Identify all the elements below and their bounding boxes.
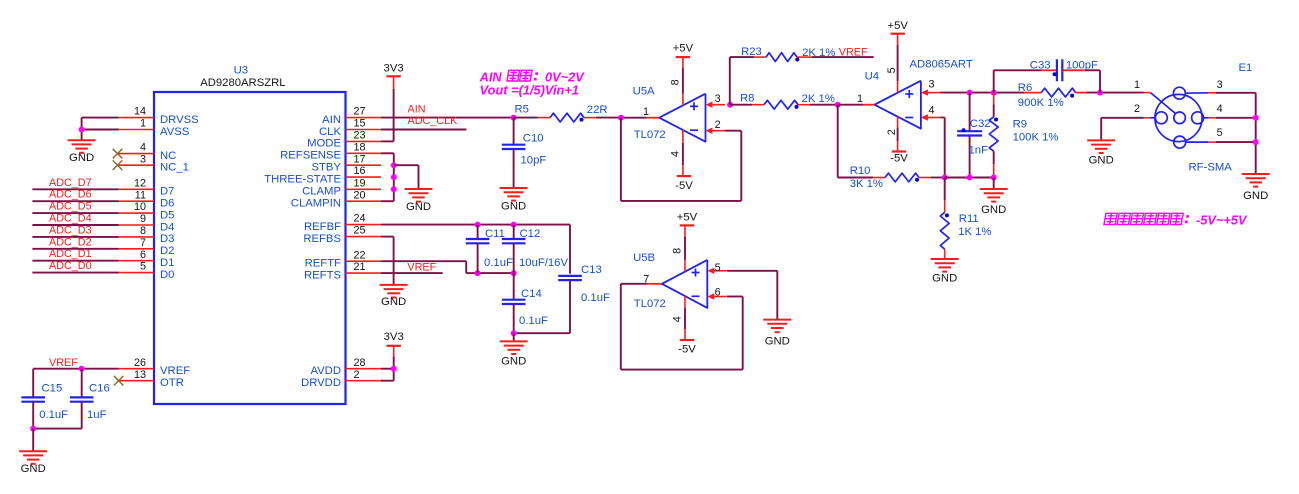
wire down to GND	[32, 429, 34, 452]
svg-text:OTR: OTR	[160, 377, 184, 389]
svg-text:1uF: 1uF	[87, 409, 107, 421]
junction R10/R11/pin4 node	[942, 175, 948, 181]
wire data bit ADC_D7	[32, 188, 118, 190]
svg-text:22: 22	[354, 249, 366, 261]
svg-text:AD8065ART: AD8065ART	[910, 58, 973, 70]
svg-text:U5A: U5A	[633, 85, 655, 97]
U3 pin 23 MODE	[345, 140, 381, 142]
no-connect X pin 4 NC	[113, 149, 123, 159]
capacitor C12	[513, 225, 515, 239]
svg-text:ADC_CLK: ADC_CLK	[408, 115, 459, 127]
junction U5A output node	[618, 115, 624, 121]
junction AVDD 3V3	[391, 366, 397, 372]
svg-text:2: 2	[1134, 103, 1140, 115]
wire data bit ADC_D2	[32, 248, 118, 250]
svg-text:ADC_D1: ADC_D1	[49, 248, 92, 260]
wire to GND under C14	[513, 333, 515, 341]
U3 pin 10 D5	[119, 212, 154, 214]
wire REFTF pin22	[381, 260, 466, 262]
wire data bit ADC_D5	[32, 212, 118, 214]
wire C32/R9 bottoms to GND	[945, 177, 994, 179]
junction VREF at C16 top	[79, 366, 85, 372]
svg-text:27: 27	[354, 106, 366, 118]
U4 pin 4 wire to R10/R11 node	[940, 117, 944, 119]
svg-text:U3: U3	[234, 64, 248, 76]
svg-text:R8: R8	[740, 92, 754, 104]
wire C11-C12 bottoms row	[478, 272, 514, 274]
ground GND under R9	[980, 188, 1008, 190]
U5A feedback wire pin2 to output	[725, 130, 741, 132]
svg-text:15: 15	[354, 118, 366, 130]
svg-text:2: 2	[715, 119, 721, 131]
wire data bit ADC_D1	[32, 260, 118, 262]
wire R8 node down to R10	[837, 105, 839, 178]
svg-text:-5V: -5V	[678, 344, 696, 356]
svg-text:AIN: AIN	[322, 114, 341, 126]
U5B pin 4 -5V	[684, 296, 686, 308]
U3 pin 20 CLAMPIN	[345, 200, 381, 202]
svg-text:TL072: TL072	[634, 129, 666, 141]
ground GND right of E1	[1242, 173, 1270, 175]
svg-text:D6: D6	[160, 198, 174, 210]
svg-text:+5V: +5V	[887, 20, 908, 32]
svg-text:C10: C10	[523, 133, 544, 145]
junction C14 bottom	[511, 330, 517, 336]
junction pin5 row	[1253, 139, 1259, 145]
capacitor C14	[513, 273, 515, 300]
svg-text:4: 4	[928, 105, 934, 117]
U3 pin 6 D1	[119, 260, 154, 262]
wire C15/C16 bottoms joined	[33, 428, 81, 430]
wire C13 bottom to C14 bottom	[514, 332, 570, 334]
wire 3V3 to MODE pin 23	[393, 76, 395, 89]
svg-text:RF-SMA: RF-SMA	[1189, 162, 1233, 174]
svg-text:C16: C16	[89, 382, 110, 394]
junction pin16 row	[391, 174, 397, 180]
svg-text:ADC_D2: ADC_D2	[49, 236, 92, 248]
U3 pin 27 AIN	[345, 117, 381, 119]
note analog input range -5V~+5V (magenta)	[1104, 213, 1117, 224]
ground GND under REFBS	[380, 284, 408, 286]
svg-text:GND: GND	[381, 296, 406, 308]
svg-text:7: 7	[140, 237, 146, 249]
svg-text:CLAMP: CLAMP	[302, 186, 341, 198]
svg-text:Vout =(1/5)Vin+1: Vout =(1/5)Vin+1	[480, 83, 579, 98]
svg-text:5: 5	[140, 261, 146, 273]
U5B feedback wire pin6 to output	[621, 283, 647, 285]
resistor R9 100K 1%	[993, 93, 995, 105]
svg-text:CLK: CLK	[319, 126, 341, 138]
wire VREF pin26 to C15/C16	[33, 368, 118, 370]
U3 pin 2 DRVDD	[345, 380, 381, 382]
E1 pin 1	[1144, 92, 1151, 94]
svg-text:3V3: 3V3	[384, 63, 404, 75]
U5B pin 6 input arrow	[713, 296, 727, 298]
svg-text:REFSENSE: REFSENSE	[280, 150, 341, 162]
svg-text:C14: C14	[521, 288, 542, 300]
junction C12/C14 node	[511, 270, 517, 276]
U3 pin 16 THREE-STATE	[345, 176, 381, 178]
svg-text:AVDD: AVDD	[310, 365, 341, 377]
wire E1 pins 3/4/5 common to GND	[1255, 93, 1257, 174]
wire data bit ADC_D0	[32, 272, 118, 274]
svg-text:3: 3	[715, 93, 721, 105]
svg-text:5: 5	[715, 262, 721, 274]
junction AIN at C10/R5	[511, 115, 517, 121]
svg-text:-5V~+5V: -5V~+5V	[1196, 213, 1248, 228]
svg-text:D3: D3	[160, 233, 174, 245]
svg-text:D1: D1	[160, 257, 174, 269]
resistor R5 22R	[514, 117, 538, 119]
svg-text:19: 19	[354, 177, 366, 189]
capacitor C11	[477, 225, 479, 239]
svg-text:28: 28	[354, 357, 366, 369]
svg-text:REFBF: REFBF	[304, 221, 341, 233]
svg-text:1nF: 1nF	[969, 145, 989, 157]
svg-text:CLAMPIN: CLAMPIN	[291, 198, 341, 210]
svg-text:R10: R10	[850, 165, 871, 177]
capacitor C33 100pF parallel branch	[993, 70, 995, 92]
svg-text:NC: NC	[160, 150, 176, 162]
U4 pin 2 -5V	[897, 117, 899, 128]
svg-text:8: 8	[140, 225, 146, 237]
wire 3V3 to AVDD/DRVDD	[393, 346, 395, 357]
no-connect X pin 13 OTR	[114, 376, 124, 386]
junction C32 bottom	[967, 175, 973, 181]
U3 pin 8 D3	[119, 236, 154, 238]
capacitor C13	[558, 275, 582, 277]
svg-text:GND: GND	[981, 204, 1006, 216]
power -5V below U4	[892, 150, 906, 152]
ground GND under C14	[500, 340, 528, 342]
capacitor C15	[32, 369, 34, 398]
U3 pin 24 REFBF	[345, 224, 381, 226]
svg-text:1: 1	[643, 106, 649, 118]
resistor R8 2K 1%	[730, 104, 752, 106]
U5A pin 8 +5V	[682, 94, 684, 106]
power +5V above U5B	[680, 224, 694, 226]
wire data bit ADC_D3	[32, 236, 118, 238]
svg-text:21: 21	[354, 261, 366, 273]
svg-text:AIN: AIN	[408, 104, 426, 116]
svg-text:D4: D4	[160, 221, 174, 233]
U3 pin 1 AVSS	[119, 129, 154, 131]
svg-text:TL072: TL072	[634, 298, 666, 310]
svg-text:2: 2	[886, 129, 898, 135]
connector E1 RF-SMA symbol	[1155, 94, 1202, 141]
svg-text:VREF: VREF	[160, 365, 190, 377]
junction C12 top	[511, 222, 517, 228]
wire REFBS pin25 to GND	[381, 236, 394, 238]
U3 pin 18 REFSENSE	[345, 152, 381, 154]
svg-text:+5V: +5V	[673, 43, 694, 55]
ground GND under C10	[500, 187, 528, 189]
ground GND right of U3 pins	[405, 188, 433, 190]
svg-text:6: 6	[715, 287, 721, 299]
wire AIN net	[381, 117, 514, 119]
svg-text:ADC_D0: ADC_D0	[49, 260, 92, 272]
U5A pin 3 input arrow	[712, 104, 726, 106]
junction R9/C33 node	[991, 90, 997, 96]
svg-text:-5V: -5V	[890, 152, 908, 164]
junction on AVSS wire	[79, 127, 85, 133]
svg-text:VREF: VREF	[407, 261, 436, 273]
svg-text:GND: GND	[406, 201, 431, 213]
U5B output pin 7	[647, 283, 662, 285]
svg-text:DRVDD: DRVDD	[301, 377, 341, 389]
power -5V below U5A	[677, 175, 691, 177]
svg-text:0.1uF: 0.1uF	[581, 292, 610, 304]
wire REFTS pin21 with VREF label	[381, 272, 443, 274]
svg-text:3V3: 3V3	[384, 331, 404, 343]
svg-text:R6: R6	[1018, 82, 1032, 94]
svg-text:100pF: 100pF	[1066, 60, 1098, 72]
U5B pin 5 input arrow	[713, 270, 727, 272]
svg-text:4: 4	[1217, 103, 1223, 115]
U3 pin 7 D2	[119, 248, 154, 250]
svg-text:U4: U4	[865, 70, 879, 82]
junction pin17 row	[391, 162, 397, 168]
E1 pin 4	[1204, 117, 1209, 119]
svg-text:5: 5	[886, 67, 898, 73]
svg-text:GND: GND	[501, 356, 526, 368]
svg-text:R9: R9	[1013, 119, 1027, 131]
svg-text:C13: C13	[581, 264, 602, 276]
junction pin19 row	[391, 186, 397, 192]
svg-text:22R: 22R	[587, 104, 608, 116]
U3 pin 11 D6	[119, 200, 154, 202]
svg-text:GND: GND	[1243, 190, 1268, 202]
svg-text:2K 1%: 2K 1%	[802, 93, 835, 105]
svg-text:GND: GND	[932, 273, 957, 285]
power -5V below U5B	[680, 339, 694, 341]
svg-text:10pF: 10pF	[521, 155, 547, 167]
svg-text:0.1uF: 0.1uF	[519, 315, 548, 327]
svg-text:100K 1%: 100K 1%	[1013, 132, 1059, 144]
svg-text:11: 11	[135, 189, 146, 201]
junction R8 right / U4 pin1 node	[835, 102, 841, 108]
svg-text:MODE: MODE	[307, 138, 341, 150]
no-connect X pin 3 NC_1	[113, 160, 123, 170]
U5A pin 4 -5V	[682, 130, 684, 143]
resistor R23 2K 1%	[730, 56, 754, 58]
op-amp U5A TL072 triangle	[659, 94, 705, 142]
wire AVSS to GND	[82, 129, 119, 131]
svg-text:12: 12	[134, 177, 146, 189]
svg-text:20: 20	[354, 189, 366, 201]
svg-text:U5B: U5B	[633, 252, 655, 264]
svg-text:25: 25	[354, 225, 366, 237]
wire U4 pin3 row to SMA pin1	[940, 92, 1024, 94]
U3 pin 17 STBY	[345, 164, 381, 166]
power 3V3 (top)	[386, 75, 400, 77]
junction U5A pin3 node	[727, 102, 733, 108]
svg-text:6: 6	[140, 249, 146, 261]
U5A output pin 1	[621, 117, 646, 119]
U3 pin 22 REFTF	[345, 260, 381, 262]
capacitor C32 1nF	[969, 93, 971, 131]
svg-text:R5: R5	[515, 104, 529, 116]
svg-text:8: 8	[672, 248, 684, 254]
U3 pin 28 AVDD	[345, 368, 381, 370]
svg-text:0.1uF: 0.1uF	[39, 409, 68, 421]
svg-text:REFBS: REFBS	[303, 233, 341, 245]
svg-text:2K 1%: 2K 1%	[802, 47, 835, 59]
U3 pin 9 D4	[119, 224, 154, 226]
resistor R10 3K 1%	[838, 177, 873, 179]
svg-text:900K 1%: 900K 1%	[1018, 97, 1064, 109]
ground GND under E1 pin2	[1087, 139, 1115, 141]
svg-text:4: 4	[670, 151, 682, 157]
U5B pin 8 +5V	[684, 260, 686, 272]
junction C11 bottom	[475, 270, 481, 276]
svg-text:3: 3	[140, 153, 146, 165]
svg-text:1: 1	[140, 118, 146, 130]
ground GND right of U5B	[763, 319, 791, 321]
power +5V above U5A	[676, 56, 690, 58]
svg-text:GND: GND	[21, 463, 46, 475]
svg-text:C33: C33	[1030, 60, 1051, 72]
svg-text:10: 10	[134, 201, 146, 213]
U4 pin 3 input arrow	[927, 92, 941, 94]
svg-text:8: 8	[670, 79, 682, 85]
svg-text:E1: E1	[1239, 62, 1253, 74]
svg-text:ADC_D5: ADC_D5	[49, 201, 92, 213]
junction C11 top	[475, 222, 481, 228]
svg-text:1: 1	[857, 93, 863, 105]
U3 pin 21 REFTS	[345, 272, 381, 274]
svg-text:GND: GND	[765, 336, 790, 348]
U4 pin 4 input arrow	[927, 117, 941, 119]
capacitor C10	[513, 118, 515, 145]
svg-text:4: 4	[140, 142, 146, 154]
svg-text:26: 26	[134, 357, 146, 369]
U3 pin 25 REFBS	[345, 236, 381, 238]
wire U5A pin3 node up to R23	[729, 57, 731, 105]
U3 pin 26 VREF	[119, 368, 154, 370]
svg-text:REFTF: REFTF	[305, 258, 341, 270]
wire pins 18-17-16-19-20 tied	[381, 152, 394, 154]
svg-text:AD9280ARSZRL: AD9280ARSZRL	[200, 77, 285, 89]
junction C33 right / R6 right	[1097, 90, 1103, 96]
junction at C15 bottom	[30, 426, 36, 432]
U3 pin 3 NC_1	[119, 164, 154, 166]
svg-text:VREF: VREF	[839, 47, 868, 59]
svg-text:3K 1%: 3K 1%	[850, 178, 883, 190]
wire DRVSS to GND	[82, 117, 119, 119]
wire data bit ADC_D6	[32, 200, 118, 202]
op IC U3 AD9280ARSZRL body	[154, 92, 346, 404]
U3 pin 5 D0	[119, 272, 154, 274]
svg-text:3: 3	[1217, 79, 1223, 91]
svg-text:REFTS: REFTS	[304, 269, 341, 281]
U3 pin 13 OTR	[119, 380, 154, 382]
wire REFBF pin24 to C13 top	[381, 224, 570, 226]
E1 pin 5	[1186, 141, 1209, 143]
svg-text:24: 24	[354, 213, 366, 225]
U3 pin 19 CLAMP	[345, 188, 381, 190]
svg-text:1K 1%: 1K 1%	[958, 226, 991, 238]
U3 pin 14 DRVSS	[119, 117, 154, 119]
svg-text:0.1uF: 0.1uF	[484, 257, 513, 269]
U3 pin 4 NC	[119, 153, 154, 155]
op-amp U4 AD8065ART triangle	[875, 81, 921, 129]
svg-text:-5V: -5V	[675, 180, 693, 192]
resistor R11 1K 1%	[944, 178, 946, 201]
svg-text:C12: C12	[520, 228, 541, 240]
power 3V3 (bottom)	[387, 345, 401, 347]
svg-text:NC_1: NC_1	[160, 162, 189, 174]
U3 pin 15 CLK	[345, 129, 381, 131]
svg-text:GND: GND	[69, 152, 94, 164]
svg-text:DRVSS: DRVSS	[160, 114, 199, 126]
wire data bit ADC_D4	[32, 224, 118, 226]
E1 pin 3	[1185, 92, 1208, 94]
wire branch to GND	[394, 164, 419, 166]
svg-text:STBY: STBY	[311, 162, 341, 174]
svg-text:D2: D2	[160, 245, 174, 257]
svg-text:10uF/16V: 10uF/16V	[519, 257, 568, 269]
svg-text:C15: C15	[42, 382, 63, 394]
power +5V above U4	[891, 33, 905, 35]
op-amp U5B TL072 triangle	[662, 260, 707, 308]
svg-text:16: 16	[354, 165, 366, 177]
svg-text:GND: GND	[501, 201, 526, 213]
svg-text:23: 23	[354, 130, 366, 142]
U4 output pin 1	[838, 104, 863, 106]
junction R9 bottom	[991, 175, 997, 181]
svg-text:17: 17	[354, 153, 366, 165]
svg-text:R11: R11	[959, 213, 979, 225]
resistor R6 900K 1%	[1024, 92, 1041, 94]
svg-text:GND: GND	[1089, 155, 1114, 167]
svg-text:+5V: +5V	[677, 211, 698, 223]
wire ADC_CLK net	[381, 129, 466, 131]
svg-text:ADC_D4: ADC_D4	[49, 213, 92, 225]
svg-text:1: 1	[1134, 79, 1140, 91]
svg-text:VREF: VREF	[49, 357, 78, 369]
U3 pin 12 D7	[119, 188, 154, 190]
ground GND under AVSS	[68, 139, 96, 141]
U5A pin 2 input arrow	[712, 130, 726, 132]
svg-text:D5: D5	[160, 209, 174, 221]
ground GND under C15/C16	[19, 450, 47, 452]
svg-text:ADC_D3: ADC_D3	[49, 224, 92, 236]
svg-text:D7: D7	[160, 186, 174, 198]
ground GND under R11	[931, 258, 959, 260]
svg-text:2: 2	[354, 369, 360, 381]
svg-text:C32: C32	[970, 118, 991, 130]
svg-text:AVSS: AVSS	[160, 126, 190, 138]
svg-text:ADC_D7: ADC_D7	[49, 177, 92, 189]
U4 pin 5 +5V	[897, 81, 899, 93]
svg-text:ADC_D6: ADC_D6	[49, 189, 92, 201]
U5B pin5 wire to GND	[727, 270, 777, 272]
svg-text:5: 5	[1217, 127, 1223, 139]
svg-text:R23: R23	[741, 46, 762, 58]
junction pin4 row	[1253, 115, 1259, 121]
junction C32 top	[967, 90, 973, 96]
svg-text:4: 4	[672, 316, 684, 322]
svg-text:13: 13	[134, 369, 146, 381]
capacitor C16	[81, 369, 83, 398]
E1 pin 2	[1151, 117, 1156, 119]
svg-text:THREE-STATE: THREE-STATE	[264, 173, 341, 185]
svg-text:D0: D0	[160, 269, 174, 281]
svg-text:9: 9	[140, 213, 146, 225]
svg-text:3: 3	[928, 79, 934, 91]
svg-text:14: 14	[134, 106, 146, 118]
